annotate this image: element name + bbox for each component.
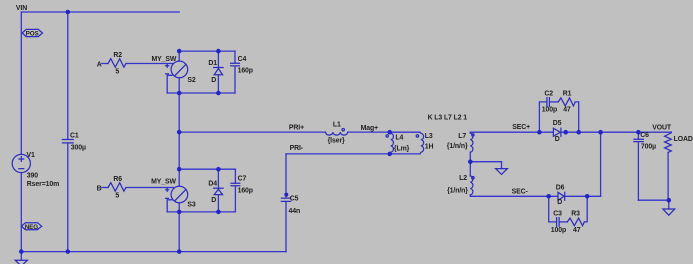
- junction D5 cathode: [563, 130, 568, 135]
- svg-text:390: 390: [27, 173, 38, 180]
- svg-text:SEC-: SEC-: [512, 189, 529, 196]
- wire R6 to S3: [126, 187, 173, 189]
- wire left rail upper: [20, 12, 22, 154]
- svg-text:47: 47: [563, 106, 571, 113]
- wire B lead: [102, 187, 108, 189]
- junction D1 bottom: [216, 91, 221, 96]
- svg-text:L4: L4: [395, 134, 403, 141]
- wire top rail: [21, 11, 179, 13]
- flag NEG: [22, 223, 42, 231]
- wire L1 to Mag+: [348, 131, 390, 133]
- ground bottom-left: [15, 252, 27, 264]
- junction bottom rail / S3 branch: [177, 249, 182, 254]
- svg-text:C5: C5: [290, 195, 299, 202]
- svg-text:NEG: NEG: [25, 224, 39, 231]
- resistor LOAD: [665, 132, 693, 200]
- wire A lead: [102, 63, 108, 65]
- wire top cell rail: [179, 50, 235, 52]
- svg-text:160p: 160p: [238, 187, 253, 194]
- snubber C2 left leg: [539, 102, 547, 132]
- wire C2 to R1: [549, 101, 558, 103]
- svg-text:V1: V1: [27, 152, 35, 159]
- wire S3 to bottom rail: [178, 212, 180, 252]
- junction bottom rail / C1: [66, 249, 71, 254]
- svg-text:MY_SW: MY_SW: [152, 56, 177, 63]
- svg-text:Mag+: Mag+: [361, 125, 378, 132]
- svg-text:D: D: [211, 77, 216, 84]
- wire C1 rail lower: [67, 143, 69, 252]
- inductor L7: [447, 132, 474, 152]
- svg-text:44n: 44n: [289, 208, 301, 215]
- snubber R3 right leg: [584, 196, 587, 222]
- svg-text:{1/n/n}: {1/n/n}: [447, 143, 468, 150]
- junction S3 bottom: [177, 210, 182, 215]
- ground center tap: [496, 162, 508, 175]
- svg-text:R2: R2: [113, 52, 122, 59]
- svg-text:C1: C1: [70, 132, 79, 139]
- svg-text:R1: R1: [563, 90, 572, 97]
- wire S2 bottom lead: [178, 78, 180, 93]
- svg-text:L2: L2: [459, 175, 467, 182]
- junction D6 snubber right: [585, 194, 590, 199]
- svg-text:LOAD: LOAD: [674, 136, 693, 143]
- svg-text:VIN: VIN: [16, 5, 27, 12]
- resistor R2: [108, 52, 126, 76]
- svg-text:300µ: 300µ: [71, 144, 86, 151]
- ground output: [663, 200, 675, 215]
- inductor L4: [386, 132, 410, 154]
- wire SEC+ row: [470, 131, 553, 133]
- wire S2 to PRI+: [178, 93, 180, 132]
- svg-text:700µ: 700µ: [641, 144, 656, 151]
- wire S2 minus loop: [167, 75, 172, 93]
- inductor L1: [326, 121, 348, 144]
- svg-text:Rser=10m: Rser=10m: [27, 181, 59, 188]
- capacitor C1: [62, 132, 86, 151]
- svg-text:C7: C7: [238, 175, 247, 182]
- inductor L2: [447, 162, 474, 197]
- capacitor C2: [542, 90, 557, 113]
- junction PRI- / L4 bottom: [387, 152, 392, 157]
- junction S3 top: [177, 167, 182, 172]
- wire SEC- row: [470, 195, 558, 197]
- diode D5: [553, 120, 562, 143]
- resistor R6: [108, 176, 126, 200]
- wire output bottom: [638, 199, 668, 201]
- wire left rail lower: [20, 173, 22, 252]
- wire D6 cathode: [565, 195, 601, 197]
- svg-text:SEC+: SEC+: [512, 124, 530, 131]
- snubber C3 left leg: [549, 196, 557, 222]
- svg-text:D: D: [211, 197, 216, 204]
- svg-text:K L3 L7 L2 1: K L3 L7 L2 1: [428, 114, 468, 121]
- wire C3 to R3: [559, 221, 567, 223]
- junction D4 top: [216, 167, 221, 172]
- capacitor C4: [231, 51, 253, 93]
- svg-text:PRI+: PRI+: [289, 124, 304, 131]
- svg-text:{lser}: {lser}: [328, 137, 345, 144]
- capacitor C6: [634, 132, 656, 200]
- svg-text:D6: D6: [556, 184, 565, 191]
- svg-text:160p: 160p: [238, 67, 253, 74]
- voltage source V1: [12, 152, 59, 188]
- wire PRI- row: [286, 153, 390, 155]
- svg-text:100p: 100p: [542, 106, 557, 113]
- svg-text:VOUT: VOUT: [652, 124, 672, 131]
- junction bottom rail / ground: [19, 249, 24, 254]
- svg-text:L7: L7: [458, 133, 466, 140]
- switch S3 MY_SW: [151, 178, 196, 208]
- wire PRI+ to S3: [178, 132, 180, 169]
- resistor R3: [567, 210, 584, 234]
- svg-text:C2: C2: [544, 90, 553, 97]
- svg-text:D5: D5: [553, 120, 562, 127]
- junction Mag+ / L4 top: [387, 130, 392, 135]
- junction C6 top: [636, 130, 641, 135]
- svg-text:S3: S3: [187, 202, 195, 209]
- svg-text:{Lm}: {Lm}: [394, 145, 410, 152]
- capacitor C5: [281, 154, 300, 252]
- svg-text:L3: L3: [425, 133, 433, 140]
- junction S2 bottom: [177, 91, 182, 96]
- snubber R1 right leg: [575, 102, 578, 132]
- svg-text:R6: R6: [113, 176, 122, 183]
- junction snubber right: [576, 130, 581, 135]
- svg-text:5: 5: [115, 192, 119, 199]
- svg-text:47: 47: [573, 227, 581, 234]
- wire C1 rail upper: [67, 12, 69, 139]
- junction D4 bottom: [216, 210, 221, 215]
- junction OR vertical top: [598, 130, 603, 135]
- svg-text:R3: R3: [571, 210, 580, 217]
- junction D1 top: [216, 49, 221, 54]
- svg-text:D: D: [557, 199, 562, 206]
- wire S3 top rail: [179, 168, 235, 170]
- wire OR vertical: [600, 132, 602, 196]
- diode D4: [208, 169, 223, 212]
- wire R2 to S2: [126, 63, 173, 65]
- svg-text:PRI-: PRI-: [290, 145, 304, 152]
- svg-text:C3: C3: [553, 210, 562, 217]
- flag POS: [22, 29, 42, 37]
- junction output ground: [667, 198, 672, 203]
- resistor R1: [558, 90, 575, 113]
- wire L7 bottom to center tap: [469, 152, 471, 162]
- svg-text:A: A: [97, 61, 102, 68]
- inductor L3: [390, 132, 434, 154]
- svg-text:100p: 100p: [551, 227, 566, 234]
- switch S2 MY_SW: [152, 56, 196, 84]
- wire S3 minus loop: [167, 200, 172, 212]
- capacitor C3: [551, 210, 566, 234]
- svg-text:L1: L1: [333, 121, 341, 128]
- svg-text:C4: C4: [238, 56, 247, 63]
- wire bottom cell rail: [167, 92, 235, 94]
- svg-text:5: 5: [115, 68, 119, 75]
- svg-text:MY_SW: MY_SW: [151, 178, 176, 185]
- svg-text:D4: D4: [208, 180, 217, 187]
- wire S2 top lead: [178, 51, 180, 61]
- diode D1: [208, 51, 223, 93]
- diode D6: [556, 184, 565, 206]
- junction SEC+ / snubber left: [537, 130, 542, 135]
- wire D5 cathode row: [561, 131, 671, 133]
- wire S3 bottom lead: [178, 203, 180, 212]
- junction PRI+: [177, 130, 182, 135]
- svg-text:1H: 1H: [425, 144, 434, 151]
- wire center tap to ground: [470, 161, 501, 163]
- junction C5 top: [284, 193, 288, 197]
- svg-text:B: B: [97, 185, 102, 192]
- capacitor C7: [231, 169, 253, 212]
- svg-text:D1: D1: [208, 60, 217, 67]
- svg-text:D: D: [555, 136, 560, 143]
- svg-text:S2: S2: [187, 77, 195, 84]
- wire S3 bottom cell rail: [167, 211, 235, 213]
- junction S2 top: [177, 49, 182, 54]
- wire PRI+ row: [179, 131, 325, 133]
- svg-text:C6: C6: [640, 132, 649, 139]
- wire S3 top lead: [178, 169, 180, 186]
- junction D6 snubber left: [546, 194, 551, 199]
- junction center tap: [468, 159, 473, 164]
- wire bottom rail: [21, 251, 286, 253]
- svg-text:POS: POS: [26, 31, 39, 38]
- junction top rail / C1: [66, 10, 71, 15]
- svg-text:{1/n/n}: {1/n/n}: [447, 187, 468, 194]
